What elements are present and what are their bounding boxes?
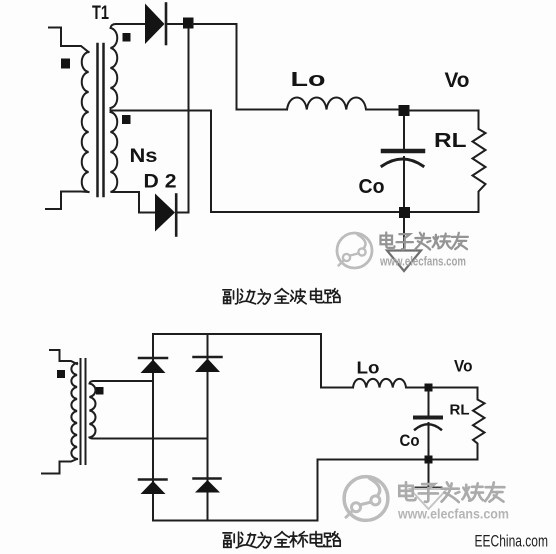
wire ground lead (bottom) <box>428 464 430 488</box>
svg-text:Vo: Vo <box>454 357 473 376</box>
svg-text:www.elecfans.com: www.elecfans.com <box>397 507 509 522</box>
watermark 1 url <box>379 255 466 269</box>
wire secondary bottom to bridge <box>94 438 208 440</box>
watermark 2 logo <box>344 477 388 521</box>
svg-text:Co: Co <box>400 432 420 450</box>
transformer T1 core <box>98 44 104 196</box>
svg-text:D 2: D 2 <box>144 172 177 193</box>
wire center tap <box>115 110 211 112</box>
wire ground lead (top) <box>403 218 405 250</box>
node B junction (top bottom) <box>399 207 410 218</box>
wire secondary top to bridge <box>94 380 153 382</box>
svg-text:Ns: Ns <box>130 146 158 167</box>
label RL (bottom) <box>450 402 470 419</box>
diode bridge top-left <box>139 358 167 373</box>
label Vo (top) <box>445 69 470 92</box>
diode D1 <box>145 4 166 45</box>
site credit EEChina.com <box>475 533 549 551</box>
svg-text:Lo: Lo <box>291 68 326 91</box>
polarity dot primary T1 <box>61 59 70 69</box>
ground (bottom) <box>410 488 447 509</box>
svg-text:www.elecfans.com: www.elecfans.com <box>379 255 466 269</box>
label D2 <box>144 172 177 193</box>
svg-text:Co: Co <box>359 176 385 198</box>
svg-text:RL: RL <box>450 402 470 419</box>
polarity dot secondary T2 <box>96 387 104 395</box>
transformer T1 secondary winding lower <box>111 110 118 192</box>
wire cathode rail down <box>188 29 190 213</box>
node Vo junction (bottom) <box>425 384 433 392</box>
diode bridge top-right <box>194 357 222 372</box>
wire node A to corner <box>193 24 287 110</box>
ground (top) <box>387 251 421 272</box>
transformer T1 secondary winding upper <box>111 24 118 108</box>
wire bridge bottom rail <box>153 520 318 522</box>
caption 1 <box>223 288 340 304</box>
wire D2 to rail <box>178 212 189 214</box>
label Lo (bottom) <box>357 358 380 378</box>
watermark 1 logo <box>337 233 372 268</box>
node junction (bottom rail) <box>425 456 433 464</box>
svg-text:EEChina.com: EEChina.com <box>475 533 549 551</box>
label RL (top) <box>434 130 467 152</box>
diode D2 <box>155 194 176 236</box>
capacitor Co (top) <box>382 116 423 207</box>
polarity dot secondary top T1 <box>123 33 131 42</box>
transformer T1 primary winding <box>82 52 89 192</box>
wire primary bottom stub T1 <box>46 192 89 210</box>
transformer T2 primary winding <box>71 363 77 459</box>
polarity dot secondary tap T1 <box>122 115 131 124</box>
wire primary bottom stub T2 <box>42 459 77 474</box>
label Co (bottom) <box>400 432 420 450</box>
label Lo (top) <box>291 68 326 91</box>
svg-text:T1: T1 <box>92 3 109 24</box>
label Vo (bottom) <box>454 357 473 376</box>
caption 2 <box>223 532 340 548</box>
diode bridge bottom-left <box>139 480 167 495</box>
node A junction <box>183 18 194 29</box>
svg-text:Vo: Vo <box>445 69 470 92</box>
inductor Lo (top) <box>287 98 398 110</box>
wire bridge output top <box>321 334 353 388</box>
svg-text:RL: RL <box>434 130 467 152</box>
capacitor Co (bottom) <box>415 392 441 456</box>
transformer T2 secondary winding <box>90 381 96 439</box>
label T1 <box>92 3 109 24</box>
label Ns <box>130 146 158 167</box>
wire secondary bottom to D2 <box>115 192 155 213</box>
wire secondary top to D1 <box>116 23 145 25</box>
node Vo junction (top) <box>399 105 410 116</box>
wire bridge right rail <box>207 334 209 521</box>
watermark 2 url <box>397 507 509 522</box>
label Co (top) <box>359 176 385 198</box>
wire bridge output bottom <box>318 460 478 521</box>
polarity dot primary T2 <box>57 370 65 378</box>
wire bridge top rail <box>153 333 321 335</box>
wire bridge left rail <box>152 334 154 521</box>
svg-text:Lo: Lo <box>357 358 380 378</box>
wire primary top stub T2 <box>50 350 77 364</box>
wire primary top stub T1 <box>49 28 89 53</box>
transformer T2 core <box>81 359 86 464</box>
wire tap down and bottom rail <box>211 111 479 213</box>
watermark 1 text <box>381 233 468 250</box>
resistor RL (top) <box>473 111 486 213</box>
wire D1 to node A <box>168 23 184 25</box>
wire to RL (bottom) <box>433 387 478 389</box>
diode bridge bottom-right <box>194 479 221 493</box>
watermark 2 text <box>399 482 504 502</box>
wire to RL (top) <box>409 110 479 112</box>
inductor Lo (bottom) <box>353 379 425 388</box>
resistor RL (bottom) <box>473 388 485 460</box>
